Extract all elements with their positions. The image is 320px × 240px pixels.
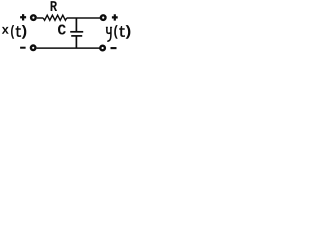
terminal output bottom [100,46,105,51]
terminal output top [101,15,106,20]
node - (input bottom terminal minus sign) [20,47,26,49]
y(t) letter t [119,26,125,37]
capacitor C top plate [70,31,83,33]
terminal input bottom [31,46,36,51]
node - (output bottom terminal minus sign) [111,47,117,49]
value label R [51,1,57,11]
node y(t) output voltage label: y with tail [107,27,111,41]
terminal input top [31,15,36,20]
node + (output top terminal plus sign) [112,14,118,20]
y top serifs [106,26,112,28]
y(t) paren right [126,25,131,39]
capacitor C bottom plate [71,35,82,37]
wire top-right [67,17,101,19]
resistor R [43,15,66,20]
wire top-left [37,17,43,19]
x(t) paren right [22,25,27,39]
x(t) letter t [16,26,22,37]
x(t) paren left [11,25,14,39]
wire capacitor bottom lead [75,36,77,48]
value label C [58,25,66,35]
node + (input top terminal plus sign) [20,14,26,20]
y(t) paren left [114,25,118,39]
wire capacitor top lead [75,18,77,31]
wire bottom [37,47,100,49]
node x(t) input voltage label: x [2,27,9,34]
